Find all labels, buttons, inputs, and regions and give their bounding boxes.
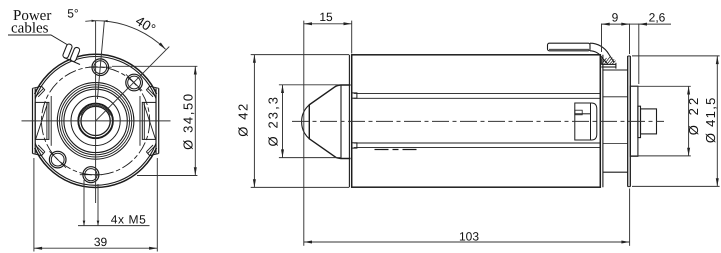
svg-text:2,6: 2,6	[649, 10, 666, 24]
dimension Ø22	[631, 86, 691, 156]
5deg + 40deg angular dimensions	[85, 20, 165, 50]
dimension 15	[304, 21, 352, 246]
svg-text:5°: 5°	[67, 7, 79, 21]
centerlines front view	[22, 21, 171, 204]
dimensions 9 and 2,6	[602, 24, 672, 85]
ring band	[57, 83, 134, 160]
45deg hole centerline	[96, 47, 170, 121]
dimension Ø23,3	[279, 85, 341, 158]
left tab	[33, 86, 52, 155]
dimension Ø41,5	[632, 56, 720, 187]
hole top	[92, 59, 109, 76]
inner stator lines	[354, 93, 600, 149]
main body	[349, 55, 603, 187]
svg-text:15: 15	[319, 10, 333, 24]
svg-text:4x M5: 4x M5	[111, 212, 146, 226]
svg-text:Ø 41,5: Ø 41,5	[703, 98, 718, 143]
leader 4x M5	[78, 180, 150, 226]
front bell	[302, 85, 351, 159]
shaft hub	[638, 106, 657, 137]
bore circles	[78, 104, 113, 139]
dimension 103	[304, 189, 630, 246]
dimension Ø42	[251, 55, 349, 188]
Ø22 boss	[630, 86, 638, 156]
hole upper-right	[126, 74, 143, 91]
side view centerline	[292, 120, 664, 122]
bolt circle (dashed)	[42, 67, 150, 175]
right tab	[140, 86, 159, 155]
5deg hole centerline	[97, 21, 104, 100]
svg-text:Ø 42: Ø 42	[236, 104, 251, 137]
svg-text:39: 39	[94, 235, 108, 249]
face bumps	[352, 93, 357, 148]
rear brush box	[575, 103, 597, 140]
inner ring	[71, 96, 120, 145]
power cables (two crimped terminals at upper-left rim)	[62, 43, 80, 64]
mounting holes	[49, 59, 142, 183]
svg-text:103: 103	[459, 229, 479, 243]
rear flange Ø41,5	[628, 56, 631, 187]
flat cut masks	[26, 94, 36, 148]
dimension 39	[34, 158, 157, 252]
dimension Ø34,50	[112, 66, 197, 175]
rear neck	[603, 70, 628, 172]
hole lower-left	[49, 151, 66, 168]
hole bottom	[83, 167, 99, 183]
cable tube and bend	[548, 43, 616, 68]
outer rim circle (double)	[29, 54, 162, 187]
svg-text:9: 9	[612, 10, 619, 24]
svg-text:cables: cables	[11, 21, 49, 37]
svg-text:Ø 23,3: Ø 23,3	[265, 97, 280, 147]
hatch	[602, 58, 607, 64]
